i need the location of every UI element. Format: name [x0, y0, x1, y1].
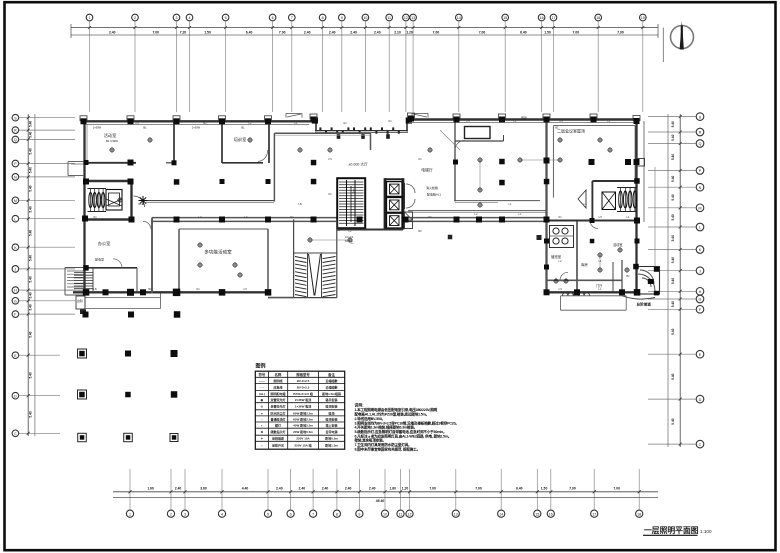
svg-text:7: 7 — [291, 16, 293, 20]
lobby partition wall vertical — [454, 120, 456, 202]
training room door arc — [258, 150, 268, 162]
svg-text:BV-3×2.5: BV-3×2.5 — [297, 385, 310, 389]
canopy step outline right — [412, 114, 428, 118]
svg-text:单管荧光灯: 单管荧光灯 — [271, 404, 286, 409]
lower-right wing partition horizontal — [547, 279, 623, 281]
svg-text:名称: 名称 — [275, 372, 282, 377]
svg-text:2.40: 2.40 — [276, 487, 283, 491]
svg-text:单相插座: 单相插座 — [272, 436, 284, 441]
svg-text:11: 11 — [399, 512, 403, 516]
elevator cars with cross symbols — [387, 182, 403, 228]
left dimension line — [27, 114, 35, 436]
svg-text:7.20: 7.20 — [180, 30, 187, 34]
svg-text:N1: N1 — [290, 215, 294, 219]
right terrace outline — [561, 296, 627, 310]
svg-text:60W 距地2.5m: 60W 距地2.5m — [293, 416, 313, 421]
svg-text:12: 12 — [408, 512, 412, 516]
service shaft boxes — [405, 212, 413, 229]
right wc inner box — [602, 192, 616, 210]
meeting room south wall — [592, 180, 636, 182]
svg-text:2.导线选用BV-500。: 2.导线选用BV-500。 — [355, 416, 386, 421]
svg-text:±0.000 大厅: ±0.000 大厅 — [348, 162, 368, 167]
svg-text:11: 11 — [387, 16, 391, 20]
outdoor column grid 3x3 — [78, 349, 179, 442]
top axis grid lines — [90, 21, 643, 112]
north arrow symbol — [671, 21, 694, 50]
svg-text:R: R — [699, 131, 702, 135]
svg-text:Q: Q — [14, 138, 17, 142]
svg-text:5.40: 5.40 — [671, 121, 675, 127]
bottom axis number circles row — [126, 510, 642, 517]
svg-text:N1: N1 — [138, 202, 142, 206]
svg-text:1.5: 1.5 — [243, 287, 247, 291]
entrance window mullion marks — [319, 127, 399, 138]
svg-text:LB: LB — [93, 287, 96, 291]
svg-text:链吊安装: 链吊安装 — [326, 397, 338, 402]
left dimension numbers — [29, 121, 33, 418]
lower-right room appliance boxes — [550, 226, 574, 248]
svg-text:库房: 库房 — [581, 262, 588, 267]
svg-text:配电箱AL1,AL2均为PZ30型,暗装,底边距地1.5m。: 配电箱AL1,AL2均为PZ30型,暗装,底边距地1.5m。 — [355, 412, 430, 417]
svg-text:5: 5 — [225, 16, 227, 20]
svg-text:5.40: 5.40 — [671, 134, 675, 140]
svg-text:7.00: 7.00 — [279, 30, 286, 34]
svg-text:G: G — [699, 298, 702, 302]
office partition wall — [85, 267, 138, 269]
svg-text:B2: B2 — [148, 287, 152, 291]
bottom wall of left wing — [73, 291, 270, 293]
svg-text:5.40: 5.40 — [29, 167, 33, 173]
svg-text:7.卫生间内灯具采用防水防尘型灯具。: 7.卫生间内灯具采用防水防尘型灯具。 — [355, 442, 412, 447]
svg-text:说明:: 说明: — [355, 403, 364, 408]
svg-text:——: —— — [259, 379, 265, 383]
svg-text:8.图中未尽事宜按国家有关规范, 规程施工。: 8.图中未尽事宜按国家有关规范, 规程施工。 — [355, 446, 420, 451]
right dimension line — [668, 114, 682, 447]
lower-right wing room labels — [551, 242, 623, 288]
main stair treads — [339, 180, 364, 226]
svg-text:7: 7 — [312, 512, 314, 516]
wiring circuit labels — [93, 119, 630, 291]
svg-text:5.40: 5.40 — [671, 154, 675, 160]
svg-text:J: J — [699, 269, 701, 273]
svg-text:电梯厅: 电梯厅 — [421, 168, 433, 173]
svg-text:1: 1 — [89, 16, 91, 20]
svg-text:疏散指示灯: 疏散指示灯 — [271, 429, 286, 434]
svg-text:10: 10 — [383, 512, 387, 516]
svg-text:19: 19 — [641, 16, 645, 20]
lower-right wing door arcs — [560, 221, 598, 281]
svg-text:LB: LB — [298, 202, 301, 206]
bottom axis extension lines — [130, 469, 639, 510]
piers on corridor south wall — [174, 217, 550, 223]
svg-text:7.00: 7.00 — [479, 30, 486, 34]
svg-text:2.40: 2.40 — [322, 487, 329, 491]
left terrace outline — [85, 294, 161, 309]
svg-text:规格型号: 规格型号 — [295, 372, 310, 377]
svg-text:15: 15 — [535, 512, 539, 516]
svg-text:6.凡标注▲者为应急照明灯具,由AL1-WE2回路, 供电,: 6.凡标注▲者为应急照明灯具,由AL1-WE2回路, 供电, 距地2.5m。 — [355, 433, 452, 438]
svg-text:1×36W 吸顶: 1×36W 吸顶 — [295, 404, 311, 409]
internal wall above corridor — [146, 201, 274, 203]
svg-text:5.疏散指示灯,应急照明灯自带蓄电池,应急时间不小于30mi: 5.疏散指示灯,应急照明灯自带蓄电池,应急时间不小于30min。 — [355, 429, 447, 434]
right accessible ramp bay — [622, 267, 660, 307]
outer wall right side double — [637, 120, 645, 294]
svg-text:值班室: 值班室 — [551, 254, 562, 259]
svg-text:◉: ◉ — [261, 398, 264, 402]
wall between hall and south stair — [268, 297, 294, 299]
svg-text:2.5: 2.5 — [135, 121, 139, 125]
svg-text:4.40: 4.40 — [242, 487, 249, 491]
svg-text:壁灯: 壁灯 — [274, 423, 281, 428]
svg-text:照明线: 照明线 — [274, 378, 283, 383]
svg-text:1.60: 1.60 — [147, 487, 154, 491]
svg-text:2: 2 — [170, 512, 172, 516]
svg-text:一层照明平面图: 一层照明平面图 — [644, 526, 699, 535]
svg-text:⌐: ⌐ — [261, 444, 263, 448]
interior free-standing columns — [82, 158, 640, 270]
svg-text:5.40: 5.40 — [29, 121, 33, 127]
svg-text:1.50: 1.50 — [544, 30, 551, 34]
svg-text:4: 4 — [221, 512, 223, 516]
wall under activity room — [85, 162, 137, 164]
main stair well outline — [337, 178, 365, 228]
svg-text:5.40: 5.40 — [29, 411, 33, 417]
svg-text:8: 8 — [336, 512, 338, 516]
electrical room box — [106, 190, 122, 211]
corridor south wall right thin — [408, 211, 546, 213]
svg-text:1.20: 1.20 — [406, 30, 413, 34]
svg-text:1: 1 — [129, 512, 131, 516]
outer wall top-right inner face — [409, 121, 634, 123]
svg-text:7.00: 7.00 — [569, 487, 576, 491]
svg-text:B1: B1 — [143, 126, 147, 130]
training room left wall — [221, 121, 223, 163]
south stair hatch treads — [295, 257, 336, 297]
svg-text:配电箱AL1: 配电箱AL1 — [427, 192, 442, 197]
svg-text:5.40: 5.40 — [671, 373, 675, 379]
svg-text:N1: N1 — [196, 287, 200, 291]
reception desk box — [465, 127, 491, 139]
svg-text:5.40: 5.40 — [29, 148, 33, 154]
toilet stalls upper-left — [88, 189, 107, 212]
lower-right inner partition — [612, 262, 614, 292]
svg-text:自带电源: 自带电源 — [326, 429, 338, 434]
svg-text:上: 上 — [352, 187, 356, 193]
svg-text:N: N — [699, 186, 702, 190]
svg-text:60W 距地2.5m: 60W 距地2.5m — [293, 410, 313, 415]
bottom dimension line — [113, 487, 658, 503]
svg-text:20W 距地0.5m: 20W 距地0.5m — [293, 429, 313, 434]
south stair V stringer — [309, 254, 321, 296]
left axis leader lines — [19, 118, 75, 434]
svg-text:5.40: 5.40 — [29, 131, 33, 137]
svg-text:雨篷: 雨篷 — [521, 115, 527, 120]
svg-text:R: R — [14, 129, 17, 133]
svg-text:7.00: 7.00 — [617, 30, 624, 34]
svg-text:5.40: 5.40 — [29, 331, 33, 337]
svg-text:台阶坡道: 台阶坡道 — [637, 302, 652, 307]
svg-text:5.40: 5.40 — [29, 292, 33, 298]
svg-text:J: J — [15, 268, 17, 272]
svg-text:单联开关: 单联开关 — [272, 443, 284, 448]
left wing inner vertical wall — [151, 218, 153, 294]
svg-text:N1: N1 — [343, 121, 347, 125]
svg-text:5.40: 5.40 — [671, 214, 675, 220]
scalloped curtain line — [563, 293, 590, 296]
service block south wall — [85, 218, 132, 220]
svg-text:L: L — [699, 226, 701, 230]
svg-text:6.40: 6.40 — [516, 487, 523, 491]
left bay window — [68, 162, 84, 176]
svg-text:B2: B2 — [203, 121, 207, 125]
svg-text:M: M — [14, 199, 17, 203]
top-right grid extension line — [662, 28, 664, 63]
right terrace side line — [654, 167, 656, 266]
right axis letter circles column — [696, 113, 704, 448]
svg-text:吸顶安装: 吸顶安装 — [326, 416, 338, 421]
svg-text:4.开关距地1.3m暗装,插座距地0.3m暗装。: 4.开关距地1.3m暗装,插座距地0.3m暗装。 — [355, 425, 418, 430]
svg-text:40W 距地2.2m: 40W 距地2.2m — [293, 423, 313, 428]
svg-text:S: S — [699, 115, 702, 119]
svg-text:N: N — [14, 176, 17, 180]
corridor south wall east section — [404, 218, 548, 222]
corridor south wall west section — [152, 218, 337, 222]
elevator lobby south wall — [455, 201, 540, 203]
svg-text:12: 12 — [404, 16, 408, 20]
hall right wall — [267, 229, 269, 292]
svg-text:多功能活动室: 多功能活动室 — [204, 249, 232, 256]
svg-text:1.5: 1.5 — [598, 215, 602, 219]
svg-text:防水防尘灯: 防水防尘灯 — [271, 410, 286, 415]
svg-text:3.照明支线均为BV-3×2.5穿PC16管,沿墙及楼板暗敷: 3.照明支线均为BV-3×2.5穿PC16管,沿墙及楼板暗敷,超过3根穿PC20… — [355, 420, 459, 425]
svg-text:PZ30-3×2.5 暗: PZ30-3×2.5 暗 — [293, 391, 313, 396]
svg-text:5.40: 5.40 — [29, 276, 33, 282]
svg-text:距地1.5m暗装: 距地1.5m暗装 — [322, 391, 341, 396]
svg-text:符号: 符号 — [258, 372, 265, 377]
svg-text:5.40: 5.40 — [29, 185, 33, 191]
svg-text:K: K — [699, 248, 702, 252]
svg-text:3: 3 — [184, 512, 186, 516]
svg-text:9: 9 — [341, 16, 343, 20]
svg-text:(AL): (AL) — [259, 392, 265, 396]
svg-text:距地1.3m: 距地1.3m — [325, 443, 338, 448]
top dimension line — [71, 24, 658, 38]
svg-text:3.60: 3.60 — [200, 487, 207, 491]
svg-text:1.50: 1.50 — [204, 30, 211, 34]
lighting circuit wires — [310, 130, 600, 281]
svg-text:7.00: 7.00 — [613, 487, 620, 491]
entrance column left — [312, 117, 318, 123]
left wing stair hall treads — [74, 268, 93, 291]
svg-text:4: 4 — [189, 16, 191, 20]
service block east wall — [130, 181, 132, 221]
left wing door arcs — [113, 221, 151, 267]
right dimension numbers — [671, 121, 675, 425]
svg-text:1.5: 1.5 — [559, 119, 563, 123]
right wall step out — [634, 159, 645, 167]
hall top wall — [179, 228, 268, 230]
entrance recessed facade — [315, 120, 408, 133]
right wc west wall — [591, 181, 593, 221]
training room bottom wall — [222, 162, 263, 164]
svg-text:6: 6 — [290, 512, 292, 516]
svg-text:1.20: 1.20 — [402, 487, 409, 491]
svg-text:17: 17 — [552, 16, 556, 20]
svg-text:16: 16 — [540, 16, 544, 20]
svg-text:活动室: 活动室 — [613, 242, 623, 247]
left axis letter circles column — [12, 114, 19, 436]
legend table — [255, 371, 344, 449]
svg-text:1.本工程照明电源由低压配电室引来,电压380/220V,照: 1.本工程照明电源由低压配电室引来,电压380/220V,照明 — [355, 407, 438, 412]
svg-text:2.40: 2.40 — [304, 30, 311, 34]
svg-text:49.40: 49.40 — [376, 499, 385, 503]
outer wall top-left section — [84, 120, 312, 122]
left porch steps dark marks — [76, 296, 86, 314]
svg-text:BV-3×2.5: BV-3×2.5 — [297, 379, 310, 383]
svg-text:14: 14 — [457, 16, 461, 20]
svg-text:1.5: 1.5 — [583, 202, 587, 206]
svg-text:B1 0.5kW: B1 0.5kW — [106, 139, 118, 143]
svg-text:5.40: 5.40 — [29, 230, 33, 236]
svg-text:2.40: 2.40 — [329, 30, 336, 34]
outer wall left side — [83, 121, 85, 293]
svg-text:P: P — [699, 169, 702, 173]
right wc door swing — [578, 190, 586, 208]
svg-text:E: E — [699, 353, 702, 357]
left entry porch with steps — [65, 268, 85, 296]
svg-text:2.40: 2.40 — [175, 487, 182, 491]
svg-text:5.40: 5.40 — [671, 235, 675, 241]
svg-text:9: 9 — [358, 512, 360, 516]
lobby partition wall horizontal — [455, 135, 504, 141]
room name labels — [93, 115, 585, 262]
svg-text:活动室: 活动室 — [104, 132, 117, 139]
svg-text:●: ● — [261, 411, 263, 415]
svg-text:2.5: 2.5 — [466, 119, 470, 123]
wall between activity rooms vertical — [173, 121, 175, 163]
entrance column right — [406, 117, 412, 123]
svg-text:2×36W: 2×36W — [93, 126, 102, 130]
svg-text:备注: 备注 — [327, 372, 335, 377]
svg-text:5.40: 5.40 — [671, 301, 675, 307]
svg-text:14: 14 — [499, 512, 503, 516]
svg-text:18: 18 — [596, 16, 600, 20]
svg-text:N1: N1 — [328, 192, 332, 196]
svg-text:沿墙暗敷: 沿墙暗敷 — [325, 378, 339, 383]
svg-text:7.00: 7.00 — [429, 487, 436, 491]
svg-text:5.40: 5.40 — [671, 176, 675, 182]
svg-text:吸顶安装: 吸顶安装 — [326, 404, 338, 409]
svg-text:1.60: 1.60 — [389, 487, 396, 491]
south stair side walls — [294, 219, 337, 297]
svg-text:照明配电箱: 照明配电箱 — [271, 391, 286, 396]
svg-text:○: ○ — [261, 417, 263, 421]
svg-text:应急线: 应急线 — [274, 384, 283, 389]
svg-text:5.40: 5.40 — [671, 257, 675, 263]
svg-text:L: L — [14, 217, 16, 221]
svg-text:B2: B2 — [626, 274, 630, 278]
svg-text:2×36W: 2×36W — [192, 126, 201, 130]
svg-text:N1: N1 — [558, 215, 562, 219]
svg-text:7.00: 7.00 — [475, 487, 482, 491]
svg-text:B1: B1 — [241, 126, 245, 130]
svg-text:办公室: 办公室 — [98, 240, 111, 247]
svg-text:13: 13 — [454, 512, 458, 516]
svg-text:双管荧光灯: 双管荧光灯 — [270, 397, 286, 402]
svg-text:18: 18 — [637, 512, 641, 516]
stair up arrow — [351, 186, 356, 222]
svg-text:H: H — [14, 289, 17, 293]
elevator lobby door arcs — [405, 183, 416, 209]
hall left wall — [178, 229, 180, 292]
svg-text:1.5: 1.5 — [336, 228, 340, 232]
svg-text:H: H — [699, 290, 702, 294]
svg-text:13: 13 — [411, 16, 415, 20]
svg-text:2.5: 2.5 — [328, 157, 332, 161]
bottom wall of right wing — [546, 291, 637, 293]
columns on top exterior wall — [80, 113, 640, 124]
svg-text:2.40: 2.40 — [369, 487, 376, 491]
svg-text:2.40: 2.40 — [374, 30, 381, 34]
svg-text:3: 3 — [176, 16, 178, 20]
svg-text:培训室: 培训室 — [234, 136, 247, 143]
meeting room inner outline — [553, 126, 635, 198]
svg-text:◐: ◐ — [261, 424, 263, 428]
svg-text:1.50: 1.50 — [541, 487, 548, 491]
svg-text:17: 17 — [592, 512, 596, 516]
toilet stalls right — [617, 188, 637, 212]
svg-text:N1: N1 — [388, 119, 392, 123]
svg-text:台阶: 台阶 — [77, 298, 83, 303]
svg-text:吸顶: 吸顶 — [329, 410, 335, 415]
svg-text:M: M — [698, 207, 701, 211]
svg-text:7.00: 7.00 — [152, 30, 159, 34]
svg-text:C: C — [14, 432, 17, 436]
svg-text:2.10: 2.10 — [394, 30, 401, 34]
outer wall top-right section — [409, 118, 637, 120]
svg-text:5.40: 5.40 — [671, 328, 675, 334]
svg-text:配电室: 配电室 — [95, 257, 104, 262]
right axis leader lines — [648, 117, 696, 445]
outer wall left inner face — [86, 124, 88, 160]
svg-text:2: 2 — [134, 16, 136, 20]
svg-text:1:100: 1:100 — [700, 529, 712, 534]
svg-text:D: D — [14, 394, 17, 398]
elevator shaft walls — [385, 178, 403, 229]
outer wall top-left inner face — [86, 123, 309, 125]
svg-text:2.40: 2.40 — [350, 30, 357, 34]
svg-text:壁装,其余吸顶安装。: 壁装,其余吸顶安装。 — [355, 438, 386, 443]
canopy step outline left — [286, 114, 302, 118]
svg-text:沿墙暗敷: 沿墙暗敷 — [325, 384, 339, 389]
svg-text:B2: B2 — [418, 229, 422, 233]
right block west wall — [545, 120, 547, 293]
hall north wall — [274, 133, 370, 135]
core south wall — [337, 229, 403, 231]
svg-text:普通吸顶灯: 普通吸顶灯 — [271, 416, 286, 421]
drawing title — [643, 526, 712, 535]
svg-text:2×36W 吸顶: 2×36W 吸顶 — [295, 397, 311, 402]
svg-text:5.40: 5.40 — [29, 304, 33, 310]
svg-text:15: 15 — [503, 16, 507, 20]
hall west wall — [273, 133, 275, 201]
svg-text:5.40: 5.40 — [671, 278, 675, 284]
svg-text:C: C — [699, 443, 702, 447]
svg-text:距地0.3m: 距地0.3m — [325, 436, 338, 441]
svg-text:D: D — [699, 398, 702, 402]
svg-text:5.40: 5.40 — [29, 255, 33, 261]
svg-text:250V 10A 暗: 250V 10A 暗 — [295, 443, 312, 448]
